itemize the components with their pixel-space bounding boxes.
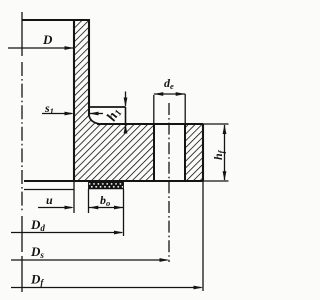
dimension d_e extension line right xyxy=(184,94,186,123)
centre axis dash-dot xyxy=(21,62,23,213)
dimension d_e extension line left xyxy=(153,95,155,123)
mating face line left of bore xyxy=(24,189,74,191)
pipe outer edge (right) xyxy=(88,19,90,116)
gasket xyxy=(89,182,124,189)
pipe bore edge (left) xyxy=(73,19,75,182)
flange top face xyxy=(97,123,203,125)
flange body right hatched section xyxy=(185,124,203,181)
flange outer edge xyxy=(202,124,204,182)
weld collar top line xyxy=(90,106,126,108)
bolt hole centreline dash-dot xyxy=(168,103,170,262)
dimension h1 upper arrow xyxy=(125,92,127,107)
bolt hole right wall xyxy=(184,124,186,181)
dimension s1 right arrow xyxy=(90,113,103,115)
dimension d_e line with outward arrows xyxy=(154,93,185,95)
centre axis solid upper part (D extension) xyxy=(21,12,23,56)
flange body left hatched section xyxy=(74,124,154,181)
weld collar step edge xyxy=(125,107,127,124)
extension line gasket inner xyxy=(88,189,90,213)
dimension D_f line xyxy=(11,287,202,289)
dimension D arrow xyxy=(65,46,75,50)
extension line gasket outer xyxy=(123,189,125,236)
extension line bore bottom xyxy=(73,182,75,214)
dimension u line xyxy=(38,207,72,209)
dimension D_s line xyxy=(11,259,168,261)
dimension D_d line xyxy=(11,232,122,234)
svg-text:D: D xyxy=(42,32,53,47)
flange top face extension for h_f xyxy=(203,123,229,125)
top edge line of pipe xyxy=(22,19,90,21)
dimension b0 line with outward arrows xyxy=(89,207,123,209)
dimension h_f double arrow xyxy=(224,125,226,180)
weld fillet curve xyxy=(89,115,100,124)
flange bottom face xyxy=(24,180,203,182)
svg-text:u: u xyxy=(46,193,53,207)
extension line flange outer bottom xyxy=(202,182,204,292)
dimension D line xyxy=(8,47,73,49)
flange bottom face extension for h_f xyxy=(203,180,229,182)
dimension s1 left arrow xyxy=(42,113,72,115)
dimension h1 lower arrow xyxy=(125,125,127,132)
centre axis lower extension xyxy=(21,216,23,293)
pipe wall hatched section xyxy=(74,20,100,124)
bolt hole left wall xyxy=(153,124,155,181)
